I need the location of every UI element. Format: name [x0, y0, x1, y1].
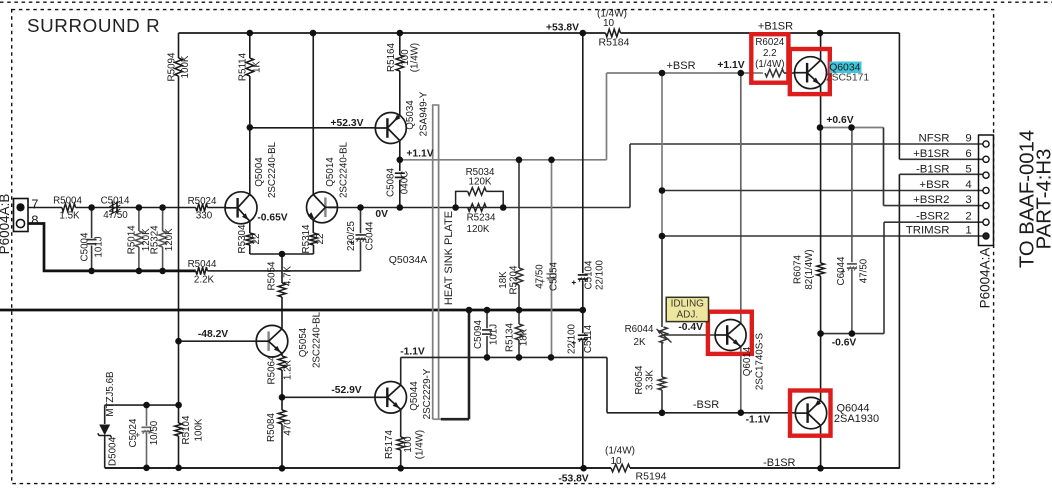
svg-text:+1.1V: +1.1V	[717, 60, 744, 71]
svg-text:ADJ.: ADJ.	[676, 310, 698, 321]
svg-text:101J: 101J	[488, 324, 499, 345]
svg-text:1K: 1K	[252, 61, 263, 73]
svg-text:R5314: R5314	[301, 224, 312, 253]
svg-text:2SC2229-Y: 2SC2229-Y	[422, 368, 433, 419]
svg-text:-53.8V: -53.8V	[558, 474, 588, 485]
svg-text:Q5044: Q5044	[409, 381, 420, 411]
svg-text:100K: 100K	[193, 418, 204, 441]
svg-text:18K: 18K	[519, 328, 530, 346]
svg-text:R5164: R5164	[386, 43, 397, 72]
svg-text:0V: 0V	[375, 209, 388, 220]
svg-text:NFSR: NFSR	[918, 133, 949, 145]
svg-text:HEAT SINK PLATE: HEAT SINK PLATE	[443, 211, 455, 305]
svg-text:100: 100	[403, 436, 414, 453]
svg-text:-B1SR: -B1SR	[763, 457, 795, 469]
svg-text:Q5054: Q5054	[298, 327, 309, 357]
svg-text:R5064: R5064	[266, 355, 277, 384]
svg-text:2K: 2K	[634, 337, 646, 348]
svg-text:MTZJ5.6B: MTZJ5.6B	[105, 371, 116, 417]
svg-text:C5094: C5094	[473, 320, 484, 349]
svg-text:C5024: C5024	[128, 418, 139, 447]
svg-text:R6044: R6044	[625, 324, 654, 335]
svg-text:2SC2240-BL: 2SC2240-BL	[267, 141, 278, 198]
svg-text:R6074: R6074	[792, 255, 803, 284]
svg-text:2SA949-Y: 2SA949-Y	[419, 91, 430, 136]
svg-text:R5234: R5234	[467, 213, 496, 224]
svg-text:22: 22	[315, 234, 326, 245]
svg-text:1: 1	[965, 225, 971, 237]
svg-text:C5104: C5104	[583, 260, 594, 289]
svg-text:R5044: R5044	[188, 259, 217, 270]
svg-text:2.2K: 2.2K	[194, 275, 215, 286]
svg-text:-48.2V: -48.2V	[198, 329, 228, 340]
svg-text:R5304: R5304	[237, 224, 248, 253]
svg-text:(1/4W): (1/4W)	[414, 430, 425, 459]
svg-text:+52.3V: +52.3V	[331, 118, 364, 129]
svg-text:+BSR: +BSR	[666, 60, 695, 72]
svg-text:4.7K: 4.7K	[283, 265, 294, 286]
svg-text:+B1SR: +B1SR	[758, 21, 793, 33]
svg-text:3.3K: 3.3K	[645, 369, 656, 390]
svg-text:(1/4W): (1/4W)	[755, 59, 784, 70]
svg-text:22/100: 22/100	[595, 259, 606, 290]
svg-text:+1.1V: +1.1V	[406, 149, 433, 160]
svg-text:C5044: C5044	[364, 221, 375, 250]
svg-text:3: 3	[965, 194, 971, 206]
svg-text:R5094: R5094	[166, 52, 177, 81]
svg-text:SURROUND R: SURROUND R	[27, 15, 160, 36]
svg-text:-0.65V: -0.65V	[257, 212, 287, 223]
svg-text:C5004: C5004	[79, 232, 90, 261]
svg-text:R5114: R5114	[238, 52, 249, 81]
svg-text:(1/4W): (1/4W)	[605, 446, 635, 457]
svg-text:-BSR2: -BSR2	[916, 211, 950, 223]
svg-text:10: 10	[603, 18, 615, 29]
svg-text:Q6014: Q6014	[742, 346, 753, 376]
svg-text:+0.6V: +0.6V	[826, 115, 853, 126]
svg-text:C5114: C5114	[583, 324, 594, 353]
svg-text:10/50: 10/50	[149, 420, 160, 445]
svg-text:R5134: R5134	[505, 323, 516, 352]
svg-text:+BSR: +BSR	[919, 179, 949, 191]
svg-text:Q5014: Q5014	[325, 157, 336, 187]
svg-text:R6024: R6024	[755, 37, 784, 48]
svg-text:R5194: R5194	[636, 471, 667, 483]
svg-text:2SC1740S-S: 2SC1740S-S	[755, 332, 766, 390]
svg-text:Q5034A: Q5034A	[389, 254, 428, 266]
svg-text:R6054: R6054	[634, 365, 645, 394]
svg-text:TRIMSR: TRIMSR	[906, 225, 950, 237]
svg-text:Q5034: Q5034	[405, 100, 416, 130]
svg-text:R5324: R5324	[150, 225, 161, 254]
svg-text:R5104: R5104	[181, 415, 192, 444]
svg-text:47/50: 47/50	[534, 264, 545, 289]
svg-text:-1.1V: -1.1V	[746, 415, 771, 426]
svg-text:-0.4V: -0.4V	[678, 322, 703, 333]
svg-text:10: 10	[610, 456, 622, 467]
svg-text:D5004: D5004	[107, 437, 118, 466]
svg-text:(1/4W): (1/4W)	[409, 43, 420, 72]
svg-text:C6044: C6044	[836, 256, 847, 285]
svg-text:-0.6V: -0.6V	[832, 338, 857, 349]
svg-text:R5084: R5084	[266, 413, 277, 442]
svg-text:-BSR: -BSR	[693, 399, 719, 411]
svg-text:2SA1930: 2SA1930	[834, 413, 879, 425]
svg-text:4: 4	[965, 179, 971, 191]
svg-text:-52.9V: -52.9V	[331, 385, 361, 396]
svg-text:6: 6	[965, 148, 971, 160]
svg-text:220/25: 220/25	[346, 220, 357, 251]
svg-text:R5184: R5184	[599, 37, 630, 49]
svg-text:R5174: R5174	[384, 430, 395, 459]
svg-text:22/100: 22/100	[567, 323, 578, 354]
svg-text:2SC5171: 2SC5171	[826, 73, 870, 84]
svg-text:8: 8	[31, 213, 38, 228]
svg-text:R5014: R5014	[126, 225, 137, 254]
svg-text:-1.1V: -1.1V	[400, 347, 425, 358]
svg-text:470: 470	[282, 419, 293, 436]
svg-text:101J: 101J	[94, 236, 105, 257]
svg-text:2SC2240-BL: 2SC2240-BL	[311, 311, 322, 368]
svg-text:+BSR2: +BSR2	[913, 194, 949, 206]
svg-text:R5024: R5024	[188, 196, 217, 207]
svg-text:P6004A:A: P6004A:A	[977, 248, 992, 309]
svg-text:R5004: R5004	[53, 196, 82, 207]
svg-text:+B1SR: +B1SR	[913, 148, 949, 160]
svg-text:IDLING: IDLING	[671, 299, 705, 310]
svg-text:7: 7	[31, 196, 38, 211]
svg-text:PART-4:H3: PART-4:H3	[1034, 149, 1052, 250]
svg-text:82(1/4W): 82(1/4W)	[804, 249, 815, 289]
svg-text:1.5K: 1.5K	[59, 211, 80, 222]
svg-text:9: 9	[965, 133, 971, 145]
svg-text:R5054: R5054	[266, 261, 277, 290]
svg-text:-B1SR: -B1SR	[916, 164, 950, 176]
svg-text:5: 5	[965, 164, 971, 176]
svg-text:C5054: C5054	[548, 262, 559, 291]
svg-text:Q5004: Q5004	[254, 157, 265, 187]
svg-text:18K: 18K	[498, 271, 509, 289]
svg-text:040C: 040C	[399, 171, 410, 194]
svg-text:P6004A:B: P6004A:B	[0, 194, 12, 255]
svg-text:330: 330	[196, 211, 213, 222]
svg-text:47/50: 47/50	[103, 210, 128, 221]
svg-text:C5084: C5084	[386, 168, 397, 197]
svg-text:R5204: R5204	[508, 265, 519, 294]
svg-text:+53.8V: +53.8V	[546, 23, 579, 34]
svg-text:120K: 120K	[467, 224, 490, 235]
svg-text:2SC2240-BL: 2SC2240-BL	[339, 141, 350, 198]
svg-text:120K: 120K	[469, 177, 492, 188]
svg-text:2.2: 2.2	[763, 48, 777, 59]
svg-text:2: 2	[965, 211, 971, 223]
svg-text:47/50: 47/50	[859, 258, 870, 283]
svg-text:1.2K: 1.2K	[283, 359, 294, 380]
svg-text:C5014: C5014	[101, 196, 130, 207]
svg-text:120K: 120K	[164, 228, 175, 251]
svg-text:22: 22	[251, 234, 262, 245]
svg-text:100K: 100K	[180, 55, 191, 78]
